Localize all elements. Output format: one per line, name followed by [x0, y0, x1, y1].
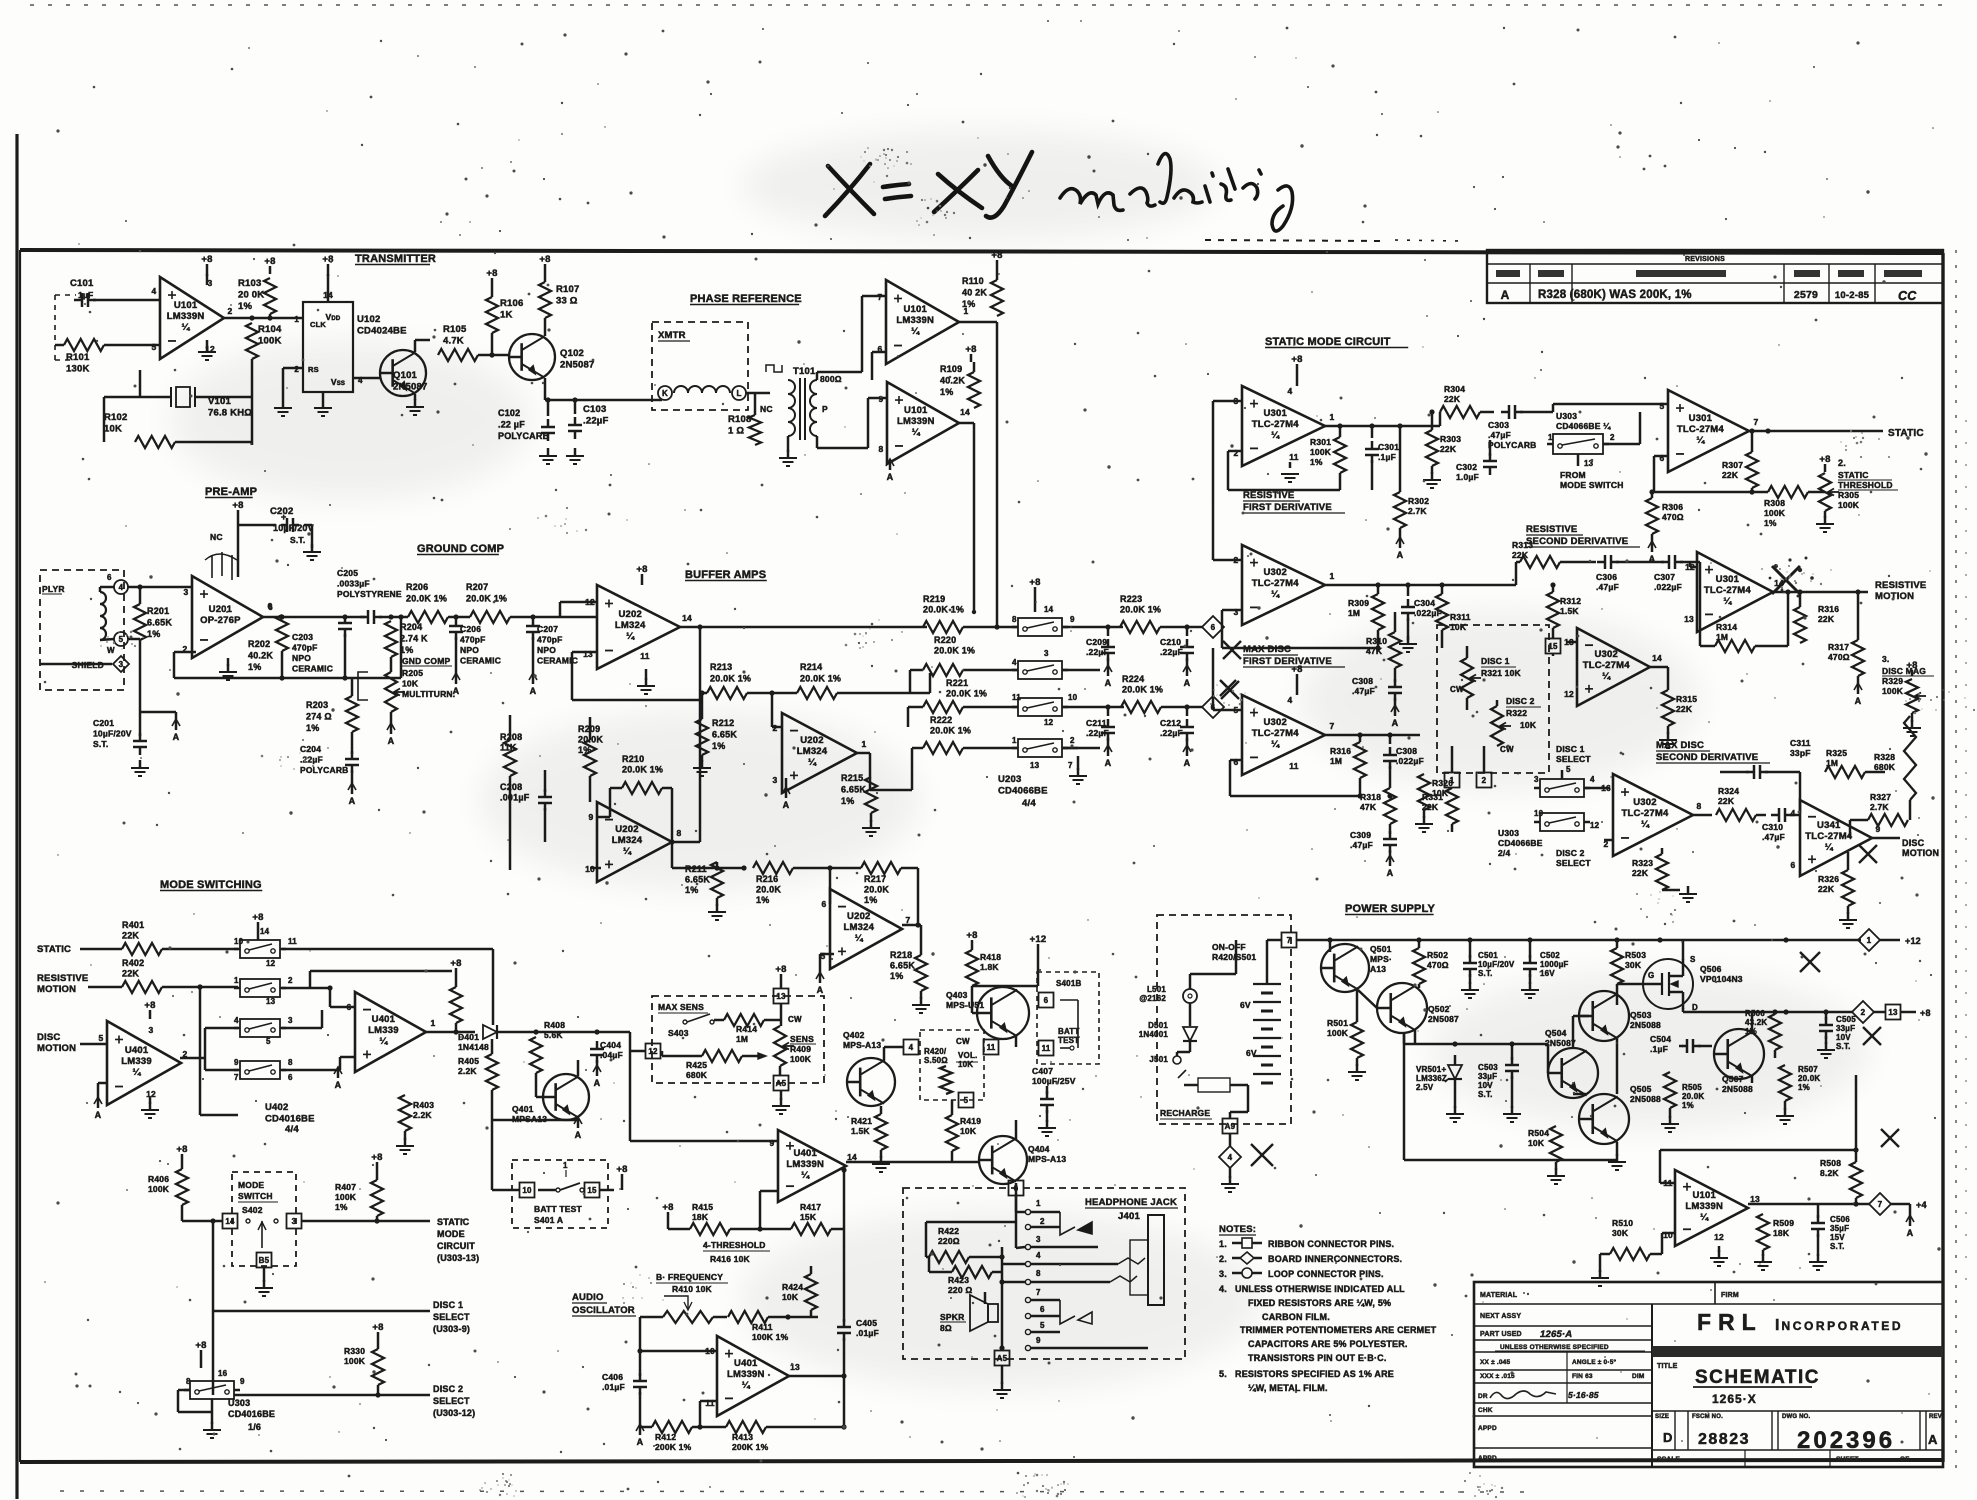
svg-text:R309: R309: [1348, 598, 1369, 608]
svg-text:.22µF: .22µF: [583, 416, 608, 427]
wire U302d out: [1693, 814, 1712, 817]
svg-text:FIXED RESISTORS ARE ¼W, 5%: FIXED RESISTORS ARE ¼W, 5%: [1248, 1298, 1391, 1308]
ground speaker: [1001, 1366, 1004, 1384]
ground U202c plus: [590, 867, 601, 870]
resistor R308: [1768, 486, 1808, 498]
svg-text:5: 5: [964, 1096, 969, 1105]
svg-text:+8: +8: [252, 912, 263, 923]
svg-text:R510: R510: [1612, 1218, 1633, 1228]
analog switch U203d: [1018, 739, 1062, 757]
resistor R510: [1610, 1248, 1650, 1260]
svg-text:1%: 1%: [306, 723, 319, 733]
svg-text:R303: R303: [1440, 434, 1461, 444]
loop connector J501: [1173, 1056, 1181, 1064]
svg-text:TRANSISTORS PIN OUT E·B·C.: TRANSISTORS PIN OUT E·B·C.: [1248, 1353, 1387, 1363]
wire U202b out down: [857, 752, 870, 755]
resistor R328: [1904, 716, 1916, 800]
svg-text:680K: 680K: [686, 1070, 708, 1080]
wire R220 left: [910, 669, 923, 672]
svg-text:3: 3: [119, 660, 124, 669]
svg-text:R327: R327: [1870, 792, 1891, 802]
svg-text:+8: +8: [616, 1164, 627, 1175]
svg-text:¼: ¼: [1723, 596, 1732, 607]
svg-text:20.0K: 20.0K: [864, 885, 889, 895]
svg-text:LM324: LM324: [844, 922, 875, 933]
ribbon connector 12: [646, 1044, 661, 1059]
svg-text:HEADPHONE JACK: HEADPHONE JACK: [1085, 1197, 1177, 1208]
svg-text:MAX SENS: MAX SENS: [658, 1002, 704, 1012]
svg-text:.04µF: .04µF: [600, 1050, 623, 1060]
ribbon connector 6 S401B: [1039, 993, 1054, 1008]
wire input to U301a plus: [1213, 400, 1242, 403]
svg-text:5: 5: [821, 951, 826, 961]
svg-text:14: 14: [260, 927, 270, 936]
svg-text:A: A: [530, 686, 537, 696]
wire R213-R214: [700, 692, 707, 695]
svg-text:22K: 22K: [1818, 614, 1835, 624]
svg-text:+8: +8: [662, 1202, 673, 1213]
svg-text:11K: 11K: [500, 743, 517, 753]
net flag A under C204: [351, 770, 354, 786]
svg-text:33pF: 33pF: [1790, 748, 1811, 758]
capacitor C201: [133, 740, 147, 743]
svg-text:1.8K: 1.8K: [980, 962, 999, 972]
svg-text:C103: C103: [583, 404, 607, 415]
svg-text:12: 12: [1714, 1232, 1724, 1242]
svg-text:100K: 100K: [1882, 686, 1904, 696]
ribbon connector 14 mode switch: [223, 1214, 238, 1229]
svg-text:1265·X: 1265·X: [1712, 1392, 1757, 1406]
svg-text:STATIC: STATIC: [437, 1217, 470, 1227]
ground R215: [870, 813, 873, 822]
svg-text:22K: 22K: [1632, 868, 1649, 878]
svg-text:K: K: [662, 389, 668, 398]
svg-text:22K: 22K: [1440, 444, 1457, 454]
svg-text:LM339N: LM339N: [896, 315, 934, 326]
svg-text:BATT TEST: BATT TEST: [534, 1204, 583, 1214]
ribbon connector 5 vol: [959, 1093, 974, 1108]
svg-text:+8: +8: [1029, 577, 1040, 588]
svg-text:RESISTIVE: RESISTIVE: [1875, 580, 1926, 591]
svg-text:NPO: NPO: [292, 653, 311, 663]
transformer T101 primary: [788, 380, 795, 436]
capacitor C205: [367, 610, 370, 624]
ground R305: [1824, 511, 1827, 518]
wire R409 top: [780, 1004, 783, 1026]
svg-text:R401: R401: [122, 920, 144, 930]
svg-text:470Ω: 470Ω: [1828, 652, 1850, 662]
svg-text:CD4066BE: CD4066BE: [1498, 838, 1543, 848]
svg-text:6: 6: [347, 1002, 352, 1012]
svg-text:100µF/25V: 100µF/25V: [1032, 1076, 1076, 1086]
resistor R509: [1757, 1214, 1769, 1250]
wire lamp diode chain: [1189, 974, 1192, 989]
op-amp U302c: [1242, 695, 1325, 775]
resistor R421: [875, 1114, 887, 1150]
resistor R310: [1389, 632, 1401, 668]
svg-text:.0033µF: .0033µF: [337, 579, 370, 589]
svg-text:C309: C309: [1350, 830, 1371, 840]
svg-text:R201: R201: [147, 606, 169, 616]
svg-text:R224: R224: [1122, 674, 1144, 684]
svg-text:PHASE REFERENCE: PHASE REFERENCE: [690, 293, 802, 305]
svg-text:1%: 1%: [335, 1202, 348, 1212]
svg-text:20.0K 1%: 20.0K 1%: [800, 674, 841, 684]
svg-text:13: 13: [1030, 761, 1040, 770]
svg-text:LOOP CONNECTOR PINS.: LOOP CONNECTOR PINS.: [1268, 1269, 1384, 1279]
jack contact 5: [1025, 1329, 1030, 1334]
svg-text:FSCM NO.: FSCM NO.: [1692, 1414, 1723, 1420]
svg-text:OP-276P: OP-276P: [200, 615, 241, 626]
svg-text:1000µF: 1000µF: [1540, 960, 1569, 969]
svg-text:SECOND DERIVATIVE: SECOND DERIVATIVE: [1526, 536, 1628, 547]
ground R504: [1555, 1162, 1558, 1170]
svg-text:6: 6: [288, 1073, 293, 1082]
svg-text:TLC-27M4: TLC-27M4: [1252, 578, 1300, 589]
resistor R101: [64, 339, 104, 351]
capacitor C208: [538, 796, 552, 799]
ground C407: [1046, 1110, 1049, 1122]
svg-text:R331: R331: [1422, 792, 1443, 802]
svg-text:SIZE: SIZE: [1655, 1414, 1669, 1420]
wire Q502 emitter down: [1414, 1030, 1417, 1044]
svg-text:U341: U341: [1817, 820, 1841, 831]
svg-text:J501: J501: [1149, 1055, 1168, 1064]
svg-text:11: 11: [288, 937, 297, 946]
jack body: [1148, 1215, 1164, 1305]
resistor R402: [122, 981, 162, 993]
resistor R418: [966, 950, 978, 986]
svg-text:CD4066BE: CD4066BE: [998, 786, 1048, 797]
resistor R210: [622, 782, 662, 794]
svg-text:R207: R207: [466, 582, 488, 592]
capacitor C212: [1180, 726, 1194, 729]
svg-text:POLYCARB: POLYCARB: [1488, 440, 1537, 450]
net flag A under C212: [1186, 738, 1189, 748]
svg-text:1.5K: 1.5K: [1560, 606, 1579, 616]
svg-text:A9: A9: [1225, 1122, 1236, 1131]
svg-text:13: 13: [266, 997, 276, 1006]
svg-text:9: 9: [1070, 615, 1075, 624]
svg-text:7: 7: [1068, 761, 1073, 770]
transistor Q505: [1579, 1094, 1629, 1144]
wire switch outputs right: [1062, 626, 1123, 629]
svg-text:R217: R217: [864, 874, 886, 884]
svg-text:PART USED: PART USED: [1480, 1331, 1522, 1338]
title block divider vertical: [1651, 1304, 1653, 1467]
svg-text:+8: +8: [371, 1152, 382, 1163]
svg-text:¼: ¼: [855, 933, 864, 944]
wire U202a in from preamp: [560, 601, 597, 604]
net flag A under R306: [1651, 534, 1654, 544]
transducer dashed box: [40, 570, 124, 690]
wire C101 to op-amp: [93, 299, 160, 302]
loop connector pin B: [732, 386, 746, 400]
ground R326: [1847, 906, 1850, 914]
svg-text:A: A: [1907, 1228, 1914, 1238]
capacitor C103: [568, 424, 582, 427]
wire Q506 drain to rail 1005: [1682, 1008, 1685, 1012]
IC U102 CD4024BE: [303, 302, 353, 392]
svg-text:D: D: [1663, 1430, 1673, 1445]
op-amp U401b: [355, 992, 426, 1072]
svg-text:R219: R219: [923, 594, 945, 604]
svg-text:1M: 1M: [1826, 758, 1838, 768]
svg-text:(U303-13): (U303-13): [437, 1253, 479, 1263]
svg-text:10K: 10K: [104, 424, 122, 435]
svg-text:R328: R328: [1874, 752, 1895, 762]
net flag A under C209: [1107, 658, 1110, 668]
potentiometer R409 SENS: [774, 1026, 786, 1066]
svg-text:R416 10K: R416 10K: [710, 1254, 751, 1264]
svg-text:S.T.: S.T.: [290, 535, 305, 545]
svg-text:DR: DR: [1478, 1393, 1488, 1400]
ground R509: [1762, 1250, 1765, 1256]
wire U301b feedback: [1654, 455, 1668, 458]
svg-text:MODE SWITCHING: MODE SWITCHING: [160, 879, 262, 891]
svg-text:FIRST DERIVATIVE: FIRST DERIVATIVE: [1243, 502, 1332, 513]
svg-text:100K: 100K: [148, 1184, 170, 1194]
svg-text:1: 1: [431, 1018, 436, 1028]
svg-text:R410 10K: R410 10K: [672, 1284, 713, 1294]
U201 offset pins NC: [211, 555, 213, 578]
svg-text:A: A: [887, 472, 894, 482]
wire U202c out: [672, 841, 700, 844]
svg-text:RECHARGE: RECHARGE: [1160, 1108, 1210, 1118]
svg-text:A: A: [173, 732, 180, 742]
svg-text:+8: +8: [1920, 1008, 1931, 1018]
svg-text:1.: 1.: [1219, 1239, 1227, 1249]
svg-text:MODE: MODE: [437, 1229, 465, 1239]
svg-text:200K 1%: 200K 1%: [732, 1442, 769, 1452]
svg-text:2.5V: 2.5V: [1416, 1083, 1434, 1092]
battery test S401A dashed box: [512, 1160, 608, 1228]
svg-text:R104: R104: [258, 324, 282, 335]
svg-text:S401 A: S401 A: [534, 1215, 563, 1225]
svg-text:.22µF: .22µF: [1160, 647, 1183, 657]
svg-text:3: 3: [149, 1025, 154, 1035]
jack tip arrow 1: [1078, 1222, 1092, 1234]
op-amp U341: [1800, 800, 1872, 876]
wire disc motion to U401a: [80, 1043, 107, 1046]
svg-text:R503: R503: [1625, 950, 1646, 960]
svg-text:680K: 680K: [1874, 762, 1896, 772]
svg-text:R204: R204: [400, 622, 422, 632]
svg-text:NC: NC: [760, 404, 773, 414]
ground C202: [311, 525, 314, 548]
svg-text:SHEET: SHEET: [1836, 1456, 1859, 1463]
svg-text:U401: U401: [793, 1148, 817, 1159]
capacitor C202: [286, 518, 289, 532]
svg-text:POWER SUPPLY: POWER SUPPLY: [1345, 903, 1435, 915]
volume pot dashed box: [920, 1030, 984, 1100]
square wave glyph: [766, 365, 782, 372]
resistor R224: [1121, 701, 1161, 713]
wire U302c out: [1325, 734, 1420, 737]
resistor R206: [408, 611, 448, 623]
jack contact 2: [1025, 1224, 1030, 1229]
title block material row: [1474, 1303, 1943, 1305]
svg-text:T101: T101: [793, 366, 816, 377]
svg-text:20.0K 1%: 20.0K 1%: [406, 594, 447, 604]
svg-text:1: 1: [1012, 736, 1017, 745]
board connector diamond right top: [1202, 616, 1224, 638]
wire R221 left: [908, 706, 923, 709]
jack contact 9: [1025, 1345, 1030, 1350]
svg-text:R308: R308: [1764, 498, 1785, 508]
svg-text:1%: 1%: [890, 971, 903, 981]
svg-text:R509: R509: [1773, 1218, 1794, 1228]
resistor R419: [946, 1115, 958, 1151]
svg-text:DIM: DIM: [1632, 1373, 1645, 1380]
svg-text:DWG NO.: DWG NO.: [1782, 1414, 1811, 1420]
svg-text:¼: ¼: [1700, 1212, 1709, 1223]
svg-text:1%: 1%: [864, 895, 877, 905]
svg-text:20.0K 1%: 20.0K 1%: [930, 726, 971, 736]
svg-text:20.0K 1%: 20.0K 1%: [934, 646, 975, 656]
wire switch U203d to ground stub: [1062, 747, 1078, 750]
svg-text:U302: U302: [1263, 567, 1287, 578]
resistor R411: [728, 1311, 768, 1323]
ground diamond 4 power: [1229, 1168, 1232, 1178]
svg-text:R306: R306: [1662, 502, 1683, 512]
svg-text:16: 16: [218, 1369, 228, 1378]
analog switch U402d: [240, 1061, 280, 1079]
svg-text:R323: R323: [1632, 858, 1653, 868]
svg-text:REVISIONS: REVISIONS: [1685, 256, 1725, 263]
capacitor C307: [1668, 555, 1671, 569]
svg-text:100K: 100K: [1310, 447, 1332, 457]
wire Q102 collector: [544, 318, 547, 336]
resistor R401: [122, 943, 162, 955]
ground C102: [547, 448, 550, 456]
potentiometer R205 GND COMP: [385, 672, 397, 712]
S401B dashed box: [1037, 972, 1099, 1064]
svg-text:U302: U302: [1263, 717, 1287, 728]
svg-text:7: 7: [878, 292, 883, 302]
net flag A R412: [639, 1425, 642, 1435]
transistor Q503: [1579, 991, 1629, 1041]
revision table column header row: [1487, 282, 1943, 284]
svg-text:+8: +8: [965, 344, 976, 355]
svg-text:+8: +8: [539, 254, 550, 265]
ground R329: [1911, 713, 1914, 722]
svg-text:¼W, METAL FILM.: ¼W, METAL FILM.: [1248, 1383, 1328, 1393]
svg-text:R325: R325: [1826, 748, 1847, 758]
svg-text:4.7K: 4.7K: [443, 336, 464, 347]
resistor R220: [923, 664, 963, 676]
svg-text:5.: 5.: [1219, 1369, 1227, 1379]
svg-text:1%: 1%: [1310, 457, 1323, 467]
svg-text:6.65K: 6.65K: [147, 618, 172, 628]
svg-text:¼: ¼: [1271, 430, 1280, 441]
svg-text:22K: 22K: [1512, 550, 1529, 560]
wire R205 wiper box: [358, 672, 368, 700]
svg-text:XXX ± .015: XXX ± .015: [1480, 1373, 1515, 1380]
svg-text:.01µF: .01µF: [602, 1382, 625, 1392]
svg-text:CD4066BE ¼: CD4066BE ¼: [1556, 421, 1611, 431]
svg-text:8: 8: [1012, 615, 1017, 624]
svg-text:20.0K 1%: 20.0K 1%: [923, 605, 964, 615]
svg-text:10: 10: [1068, 693, 1078, 702]
capacitor C301: [1365, 448, 1379, 451]
svg-text:BATT: BATT: [1058, 1027, 1080, 1036]
op-amp U302d: [1613, 774, 1693, 856]
potentiometer R305 STATIC THRESHOLD: [1819, 473, 1831, 511]
analog switch U303a from mode switch: [1553, 434, 1603, 454]
transistor Q501: [1321, 944, 1369, 992]
svg-text:R502: R502: [1427, 950, 1448, 960]
svg-text:TLC-27M4: TLC-27M4: [1805, 831, 1853, 842]
svg-text:MAX DISC: MAX DISC: [1243, 644, 1291, 655]
svg-text:¼: ¼: [742, 1380, 751, 1391]
svg-text:6: 6: [1660, 453, 1665, 463]
svg-text:¼: ¼: [912, 427, 921, 438]
resistor R315: [1662, 690, 1674, 726]
svg-text:5·16·85: 5·16·85: [1568, 1390, 1599, 1400]
capacitor C506: [1811, 1222, 1825, 1225]
analog switch U303c disc2 select: [1540, 813, 1584, 831]
revision table box: [1487, 250, 1943, 303]
frame right line: [1941, 253, 1944, 1462]
svg-text:7: 7: [906, 915, 911, 925]
svg-text:10K: 10K: [402, 679, 419, 689]
svg-text:+8: +8: [486, 268, 497, 279]
svg-text:6: 6: [1014, 1184, 1019, 1193]
ribbon connector 13 max sens: [774, 989, 789, 1004]
svg-text:Q501: Q501: [1370, 944, 1392, 954]
svg-text:A: A: [1855, 696, 1862, 706]
svg-text:30K: 30K: [1625, 960, 1642, 970]
svg-text:1: 1: [294, 315, 299, 324]
svg-text:7: 7: [1287, 936, 1292, 945]
svg-text:+8: +8: [1819, 454, 1830, 465]
wire pot bottoms to connectors: [1451, 746, 1454, 772]
svg-text:11: 11: [705, 1398, 714, 1408]
svg-text:R304: R304: [1444, 384, 1465, 394]
wire U341 out to DISC MOTION: [1872, 837, 1900, 840]
svg-text:U101: U101: [903, 304, 927, 315]
resistor R302: [1394, 492, 1406, 528]
svg-text:12: 12: [1590, 821, 1600, 830]
op-amp U401d audio: [717, 1336, 789, 1416]
ribbon connector 7 power: [1282, 933, 1297, 948]
svg-text:U303: U303: [228, 1398, 250, 1408]
svg-text:+8: +8: [195, 1340, 206, 1351]
analog switch U402c: [240, 1019, 280, 1037]
title block scale row: [1652, 1449, 1943, 1451]
svg-text:C210: C210: [1160, 637, 1181, 647]
wire C303 over switch to U301b: [1552, 404, 1555, 412]
svg-text:DISC: DISC: [1902, 838, 1925, 848]
loop pin shield diamond: [113, 656, 129, 672]
svg-text:4: 4: [1791, 808, 1796, 818]
svg-text:J401: J401: [1118, 1211, 1140, 1222]
diode D501: [1183, 1027, 1197, 1041]
svg-text:470Ω: 470Ω: [1662, 512, 1684, 522]
ground R421: [880, 1150, 883, 1158]
potentiometer R410: [663, 1311, 713, 1323]
svg-text:4/4: 4/4: [285, 1124, 299, 1135]
svg-text:10-2-85: 10-2-85: [1835, 290, 1870, 301]
svg-text:R329: R329: [1882, 676, 1903, 686]
wire vertical to disc selects: [212, 1221, 215, 1395]
svg-text:RIBBON CONNECTOR PINS.: RIBBON CONNECTOR PINS.: [1268, 1239, 1394, 1249]
ground C502: [1529, 974, 1532, 984]
svg-text:2.2K: 2.2K: [413, 1110, 432, 1120]
svg-text:C306: C306: [1596, 572, 1617, 582]
svg-text:2: 2: [1070, 736, 1075, 745]
